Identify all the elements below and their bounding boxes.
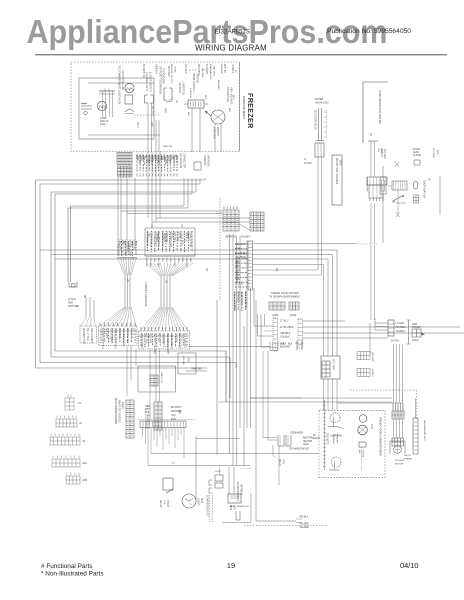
connector grid C1 bbox=[223, 210, 239, 231]
svg-text:FREEZER: FREEZER bbox=[246, 93, 255, 129]
label text mass rows bbox=[136, 155, 138, 157]
svg-text:PNK BLU/WHT: PNK BLU/WHT bbox=[90, 328, 92, 344]
svg-text:RED/WHT TAN: RED/WHT TAN bbox=[82, 328, 85, 344]
harness fan L2 bbox=[140, 307, 160, 331]
svg-text:DEFROST: DEFROST bbox=[178, 82, 181, 94]
nested corners to FF doors box bbox=[254, 325, 273, 327]
compressor brackets bbox=[209, 480, 212, 485]
icemaker wires bbox=[278, 446, 280, 485]
icemaker dashed boundary right bbox=[350, 389, 417, 391]
wires from connector cluster to bus bbox=[191, 178, 193, 194]
svg-text:YEL/RED: YEL/RED bbox=[383, 149, 385, 159]
dashed link top bbox=[362, 81, 364, 83]
svg-text:ASSY): ASSY) bbox=[121, 402, 124, 409]
compressor feed bus bbox=[148, 465, 250, 467]
svg-text:ICEMAKER MOLD: ICEMAKER MOLD bbox=[236, 482, 239, 502]
harness fan U2 bbox=[145, 255, 195, 257]
connector bracket pair bbox=[145, 95, 149, 103]
thermal fuse row bbox=[189, 346, 270, 348]
svg-text:WTR TANK: WTR TANK bbox=[332, 359, 335, 371]
connector J3 bbox=[50, 437, 80, 445]
left bus wires bbox=[36, 179, 206, 181]
bus into FF area bbox=[151, 453, 319, 455]
svg-text:BLK BLU/WHT: BLK BLU/WHT bbox=[109, 328, 111, 344]
svg-text:PNK BLK/WHT: PNK BLK/WHT bbox=[140, 333, 142, 349]
valve wires down bbox=[317, 157, 319, 270]
narrow box with vertical text bbox=[332, 155, 342, 205]
wires from heater and fan down bbox=[191, 108, 193, 152]
svg-text:YEL/RED: YEL/RED bbox=[299, 524, 309, 526]
connector J2 bbox=[56, 419, 77, 427]
svg-text:LT. BLU/BLK: LT. BLU/BLK bbox=[280, 326, 294, 329]
wires from connector into FF box bbox=[323, 379, 325, 410]
svg-text:(PART OF CONTROL: (PART OF CONTROL bbox=[118, 400, 121, 424]
bus lines upper FF bbox=[250, 397, 302, 399]
door cluster feed bbox=[382, 210, 384, 243]
freezer lamp E2 bbox=[125, 83, 134, 92]
water valve body bbox=[318, 108, 320, 140]
svg-text:WHT 2X: WHT 2X bbox=[223, 64, 225, 73]
svg-text:DEFROST CUTOUT: DEFROST CUTOUT bbox=[170, 64, 172, 85]
ballast box bbox=[125, 95, 133, 104]
mini header bbox=[80, 326, 97, 343]
freezer harness connector A bbox=[117, 153, 132, 165]
svg-text:J4B: J4B bbox=[82, 478, 87, 482]
svg-text:HEATER: HEATER bbox=[196, 74, 199, 83]
fluorescent tube symbol bbox=[99, 90, 115, 92]
svg-text:SUPPLY: SUPPLY bbox=[371, 369, 373, 378]
svg-text:19: 19 bbox=[227, 561, 235, 570]
svg-text:FREEZER LIGHT: FREEZER LIGHT bbox=[145, 72, 148, 91]
L2 header box bbox=[139, 331, 190, 349]
svg-text:TAN: TAN bbox=[153, 258, 156, 263]
FF lamp 1 bbox=[330, 413, 340, 423]
svg-text:EI32AF65JS: EI32AF65JS bbox=[215, 29, 250, 36]
compressor motor bbox=[182, 494, 196, 508]
svg-text:BRN: BRN bbox=[171, 233, 173, 238]
ice motor bbox=[390, 441, 405, 454]
fresh food compartment dashed boundary bbox=[319, 410, 385, 477]
icemaker connector header bbox=[392, 411, 404, 419]
svg-text:BLK/WHT 2X: BLK/WHT 2X bbox=[142, 64, 144, 78]
svg-text:TAN: TAN bbox=[235, 278, 240, 281]
svg-text:PUR RED: PUR RED bbox=[118, 328, 120, 339]
svg-text:HARNESS: HARNESS bbox=[207, 155, 210, 167]
right vertical wires bbox=[439, 176, 441, 215]
compressor bottom wire bbox=[222, 522, 251, 524]
svg-text:ISOLATION VALVE: ISOLATION VALVE bbox=[314, 110, 317, 130]
lamp socket bars bbox=[81, 105, 92, 107]
svg-text:J10: J10 bbox=[178, 410, 181, 415]
svg-text:WHT/BLK: WHT/BLK bbox=[155, 233, 157, 243]
svg-text:BLK: BLK bbox=[228, 108, 230, 113]
component box right bbox=[380, 177, 386, 194]
svg-text:J1: J1 bbox=[78, 401, 81, 405]
svg-text:NATURAL BRN WHT: NATURAL BRN WHT bbox=[423, 420, 426, 441]
svg-text:GRN/YEL: GRN/YEL bbox=[163, 146, 173, 148]
freezer harness connector B bbox=[118, 166, 133, 177]
svg-text:FRESH FOOD COMPARTMENT: FRESH FOOD COMPARTMENT bbox=[379, 417, 383, 457]
svg-text:HIGH VOLTAGE: HIGH VOLTAGE bbox=[230, 87, 233, 105]
title rule bbox=[35, 54, 447, 56]
svg-text:SEE NOTE: SEE NOTE bbox=[326, 433, 328, 445]
svg-text:J1: J1 bbox=[165, 280, 169, 283]
wires under board bbox=[142, 428, 144, 438]
UI to stack wires bbox=[370, 160, 372, 177]
aux box above board bbox=[178, 353, 196, 374]
svg-text:Publication No. 5995564050: Publication No. 5995564050 bbox=[327, 28, 411, 35]
wires down from header bbox=[393, 419, 395, 438]
svg-text:(GND): (GND) bbox=[412, 340, 419, 342]
svg-text:ORN PUR: ORN PUR bbox=[162, 333, 164, 344]
svg-text:PNK: PNK bbox=[235, 274, 240, 277]
alarm grid bbox=[414, 195, 419, 203]
svg-text:DOOR AJAR SW: DOOR AJAR SW bbox=[423, 180, 426, 199]
svg-text:PTC: PTC bbox=[163, 500, 165, 505]
svg-text:BLK/WHT: BLK/WHT bbox=[280, 346, 291, 349]
svg-text:PNK: PNK bbox=[145, 427, 150, 430]
svg-text:LT. BLU: LT. BLU bbox=[280, 320, 289, 323]
FF doors connector strip left bbox=[273, 318, 278, 351]
freezer compartment dashed boundary bbox=[71, 62, 240, 152]
svg-text:COMP: COMP bbox=[197, 498, 200, 506]
svg-text:WHT/BLK: WHT/BLK bbox=[432, 148, 434, 158]
svg-text:RED: RED bbox=[181, 258, 183, 263]
svg-text:BLU: BLU bbox=[123, 241, 125, 246]
svg-text:YEL/BLU: YEL/BLU bbox=[184, 64, 186, 74]
svg-text:DOOR: DOOR bbox=[413, 149, 420, 151]
svg-text:FILTER: FILTER bbox=[362, 450, 364, 458]
svg-text:15 PIN: 15 PIN bbox=[391, 340, 399, 343]
stack wires down bbox=[370, 203, 372, 244]
svg-text:OVLD: OVLD bbox=[215, 471, 221, 473]
pin row under labels bbox=[136, 174, 138, 177]
svg-text:RED TAN: RED TAN bbox=[149, 333, 152, 343]
svg-text:YEL LT BLU: YEL LT BLU bbox=[86, 328, 88, 341]
svg-text:TAN: TAN bbox=[171, 414, 176, 417]
svg-text:J3: J3 bbox=[82, 439, 85, 443]
svg-text:ORN: ORN bbox=[164, 108, 166, 113]
bundle U2-L2 bbox=[160, 276, 162, 307]
wires into 15 pin connector bbox=[375, 322, 388, 324]
svg-text:####: #### bbox=[81, 102, 87, 106]
svg-text:FINGER: FINGER bbox=[404, 459, 413, 461]
svg-text:120V: 120V bbox=[100, 123, 106, 126]
compressor dotted lines bbox=[209, 495, 211, 522]
mini connector bracket bbox=[69, 282, 77, 287]
svg-text:04/10: 04/10 bbox=[400, 561, 419, 570]
svg-text:SIDE: SIDE bbox=[339, 160, 341, 166]
svg-text:ORN/BLK: ORN/BLK bbox=[155, 64, 157, 75]
svg-text:TAN: TAN bbox=[189, 258, 192, 263]
FF doors connector strip right bbox=[298, 319, 303, 348]
svg-text:SPLY: SPLY bbox=[136, 122, 139, 128]
svg-text:FAN: FAN bbox=[370, 424, 373, 429]
center pin ladder bbox=[248, 241, 253, 290]
relay / PTC bbox=[163, 478, 173, 490]
svg-text:TAN/BLK: TAN/BLK bbox=[231, 64, 234, 74]
connector J4A bbox=[52, 459, 80, 467]
svg-text:WHT/BLK: WHT/BLK bbox=[201, 68, 203, 78]
svg-text:RED/WHT YEL/RED: RED/WHT YEL/RED bbox=[153, 333, 155, 354]
svg-text:GRY: GRY bbox=[161, 258, 163, 263]
svg-text:MAIN POWER BOARD: MAIN POWER BOARD bbox=[114, 398, 117, 424]
connector box above FF bbox=[321, 356, 340, 379]
FF fan small circle bbox=[359, 415, 367, 423]
svg-text:WATER TANK HARNESS: WATER TANK HARNESS bbox=[335, 158, 338, 185]
svg-text:ORN/BLK: ORN/BLK bbox=[127, 241, 129, 251]
svg-text:CABINET: CABINET bbox=[203, 155, 206, 166]
svg-text:SCREW: SCREW bbox=[412, 327, 421, 329]
svg-text:HI-LIMIT: HI-LIMIT bbox=[241, 236, 251, 239]
freezer lamp E1 bbox=[97, 101, 106, 110]
connector J1 bbox=[65, 398, 74, 410]
stack connector body bbox=[369, 185, 383, 198]
valve connector bbox=[315, 143, 324, 157]
svg-text:HARNESS: HARNESS bbox=[240, 484, 243, 496]
freezer harness dashed boundary bbox=[219, 198, 221, 300]
svg-text:ORN: ORN bbox=[169, 258, 171, 263]
svg-text:WHT/RED: WHT/RED bbox=[68, 305, 79, 308]
FF fan motor bbox=[358, 425, 368, 435]
svg-text:ORN/BLK: ORN/BLK bbox=[220, 64, 222, 74]
icemaker grid bbox=[392, 438, 404, 446]
LED supply blocks bbox=[357, 352, 370, 360]
icemaker bracket bbox=[278, 435, 284, 446]
svg-text:WHT/BLK: WHT/BLK bbox=[396, 326, 407, 329]
svg-text:HTR: HTR bbox=[282, 459, 284, 464]
header to board drops bbox=[126, 346, 128, 396]
svg-text:ORN: ORN bbox=[380, 148, 382, 153]
freezer light assembly box bbox=[79, 78, 154, 139]
15 pin connector strip bbox=[388, 320, 394, 336]
FF doors grid A bbox=[269, 302, 285, 310]
svg-text:THERMISTOR: THERMISTOR bbox=[366, 177, 368, 192]
svg-text:ICEMAKER: ICEMAKER bbox=[290, 432, 303, 435]
L2 text mass bbox=[140, 334, 142, 335]
svg-text:FZ: FZ bbox=[275, 268, 279, 272]
svg-text:EVAP FAN RTN: EVAP FAN RTN bbox=[209, 64, 212, 80]
board connector grid left bbox=[126, 400, 134, 438]
svg-text:COMPRESSOR CKT: COMPRESSOR CKT bbox=[206, 495, 208, 517]
UI connector bbox=[368, 140, 378, 142]
board bottom pin strip bbox=[140, 421, 186, 428]
hatched connector bbox=[392, 181, 407, 190]
svg-text:LAMP: LAMP bbox=[272, 314, 279, 317]
svg-text:J2: J2 bbox=[79, 421, 82, 425]
inner right boundary bbox=[239, 62, 241, 151]
svg-text:START: START bbox=[166, 500, 169, 508]
svg-text:HTR RTN: HTR RTN bbox=[189, 88, 191, 98]
svg-text:ORN: ORN bbox=[187, 357, 189, 362]
svg-text:DEFROST: DEFROST bbox=[225, 236, 237, 239]
svg-text:FZ HARNESS: FZ HARNESS bbox=[179, 153, 182, 169]
yel/red labels bbox=[296, 518, 302, 520]
svg-text:YEL/BLK: YEL/BLK bbox=[299, 517, 309, 519]
svg-text:BLU/WHT: BLU/WHT bbox=[163, 233, 165, 243]
U1 text mass bbox=[117, 241, 119, 242]
svg-text:LT BLU: LT BLU bbox=[304, 162, 312, 165]
svg-text:J2: J2 bbox=[126, 279, 130, 282]
svg-text:YEL/BLK: YEL/BLK bbox=[280, 336, 290, 339]
harness fan L1 bbox=[100, 307, 125, 326]
dotted board edge bbox=[138, 419, 195, 421]
svg-text:YEL/RED ORN: YEL/RED ORN bbox=[169, 232, 171, 248]
grn/yel label bbox=[186, 370, 207, 372]
FF lamp 2 bbox=[331, 457, 341, 467]
svg-text:CONNECTOR: CONNECTOR bbox=[183, 153, 186, 169]
door switch arc bbox=[125, 110, 134, 113]
svg-text:LAMP: LAMP bbox=[290, 314, 297, 317]
L2 pin ticks bbox=[140, 327, 142, 331]
svg-text:TSTAT: TSTAT bbox=[174, 66, 177, 73]
connector grid C2 bbox=[250, 212, 264, 231]
svg-text:MOTOR: MOTOR bbox=[216, 127, 219, 136]
svg-text:BLK: BLK bbox=[288, 344, 293, 346]
svg-text:FILL SW: FILL SW bbox=[182, 356, 184, 365]
svg-text:& DOOR SWITCH: & DOOR SWITCH bbox=[149, 72, 152, 92]
svg-text:LAMP 60W: LAMP 60W bbox=[330, 435, 342, 438]
svg-text:YEL/RED: YEL/RED bbox=[299, 527, 309, 529]
harness fan U1 bbox=[118, 258, 125, 276]
svg-text:THERMOSTAT: THERMOSTAT bbox=[162, 68, 165, 85]
svg-text:BLK WHT: BLK WHT bbox=[152, 106, 154, 116]
svg-text:RED/WHT: RED/WHT bbox=[217, 80, 219, 91]
svg-text:AJAR: AJAR bbox=[413, 151, 419, 154]
svg-text:HEATER 2X: HEATER 2X bbox=[182, 82, 185, 96]
svg-text:DRAIN TROUGH: DRAIN TROUGH bbox=[192, 73, 195, 91]
svg-text:USER INTERFACE BOARD: USER INTERFACE BOARD bbox=[378, 90, 382, 124]
overload bbox=[215, 475, 223, 481]
svg-text:ALARM: ALARM bbox=[413, 154, 421, 157]
svg-text:YEL YEL: YEL YEL bbox=[157, 333, 159, 343]
wires down to harness connectors bbox=[117, 178, 119, 240]
dashed divider bbox=[134, 114, 160, 116]
svg-text:RUN: RUN bbox=[230, 506, 235, 508]
svg-text:RED: RED bbox=[436, 150, 438, 155]
svg-text:BLK: BLK bbox=[187, 112, 189, 117]
stack connector header bbox=[367, 177, 387, 185]
svg-text:HRVST: HRVST bbox=[404, 455, 412, 457]
svg-text:LINE FLTR: LINE FLTR bbox=[160, 372, 162, 383]
svg-text:BLU/WHT: BLU/WHT bbox=[171, 407, 182, 409]
svg-text:FZ EVAP FAN: FZ EVAP FAN bbox=[226, 87, 229, 102]
center label mass bbox=[235, 243, 237, 245]
feeder verticals to icemaker header bbox=[393, 344, 395, 403]
svg-text:BLK BRN: BLK BRN bbox=[105, 328, 107, 338]
connector J4B bbox=[66, 476, 80, 484]
tick mark 2 bbox=[396, 212, 400, 217]
diagonal link bbox=[239, 224, 250, 230]
harness connector U2 box bbox=[145, 228, 195, 256]
svg-text:YEL/BLK: YEL/BLK bbox=[396, 330, 406, 333]
svg-text:J4A: J4A bbox=[82, 461, 87, 465]
svg-text:GRN: GRN bbox=[412, 324, 417, 326]
defrost thermostat symbol bbox=[164, 88, 167, 100]
mini fan bbox=[81, 318, 87, 326]
FF connector rail bbox=[324, 400, 326, 470]
svg-text:TAN PNK: TAN PNK bbox=[174, 333, 177, 343]
control box outline bbox=[138, 366, 176, 392]
bus feeders right bbox=[253, 243, 357, 245]
svg-text:FZ COMPARTMENT LIGHT ASSY: FZ COMPARTMENT LIGHT ASSY bbox=[118, 66, 121, 105]
svg-text:BLU/GRY: BLU/GRY bbox=[205, 64, 207, 75]
alarm oval bbox=[413, 181, 417, 189]
svg-text:ORN: ORN bbox=[177, 258, 179, 263]
svg-text:WIRING DIAGRAM: WIRING DIAGRAM bbox=[195, 43, 267, 52]
bus lines into center bbox=[40, 249, 249, 251]
svg-text:HEATER: HEATER bbox=[303, 440, 312, 443]
svg-text:# Functional Parts: # Functional Parts bbox=[41, 563, 93, 570]
svg-text:FRESH FOOD DOORS: FRESH FOOD DOORS bbox=[271, 291, 299, 295]
svg-text:ORN/BLK WHT/BLK: ORN/BLK WHT/BLK bbox=[114, 328, 116, 349]
bundle U1-L1 bbox=[124, 275, 126, 307]
svg-text:LIGHT: LIGHT bbox=[313, 438, 320, 440]
L1 header box bbox=[99, 326, 138, 346]
svg-text:* Non-Illustrated Parts: * Non-Illustrated Parts bbox=[41, 571, 104, 578]
horizontal feeders y211-213 bbox=[121, 210, 222, 212]
svg-text:PNK: PNK bbox=[179, 233, 181, 238]
svg-text:CAPACITOR: CAPACITOR bbox=[236, 505, 249, 508]
door switch symbol bbox=[393, 196, 402, 201]
svg-text:RUN: RUN bbox=[200, 498, 202, 503]
svg-text:LEAF: LEAF bbox=[303, 443, 309, 446]
svg-text:RELAY: RELAY bbox=[159, 500, 162, 508]
svg-text:ICE MAKER MOLD: ICE MAKER MOLD bbox=[289, 448, 309, 451]
bottom dashed boundary bbox=[244, 525, 328, 527]
svg-text:IN SHOWN ENVIRONMENT: IN SHOWN ENVIRONMENT bbox=[270, 296, 301, 299]
svg-text:WHT: WHT bbox=[204, 95, 206, 101]
svg-text:DEFROST TERMINATION: DEFROST TERMINATION bbox=[159, 66, 162, 95]
valve tick bbox=[316, 140, 325, 142]
run capacitor box bbox=[228, 494, 241, 503]
wires from light assy down bbox=[147, 103, 149, 152]
svg-text:GRY: GRY bbox=[165, 258, 167, 263]
L1 pin ticks bbox=[99, 323, 101, 327]
svg-text:FAN SPLY: FAN SPLY bbox=[213, 66, 216, 77]
svg-text:MOTOR: MOTOR bbox=[395, 464, 404, 466]
drain trough dashed line bbox=[189, 69, 206, 71]
user interface board outline bbox=[363, 82, 388, 143]
wires out right of FF doors bbox=[303, 320, 346, 322]
svg-text:AIR: AIR bbox=[358, 450, 361, 454]
harness brace bbox=[408, 320, 410, 344]
icemaker feed verticals bbox=[255, 300, 257, 521]
air filter box bbox=[359, 442, 366, 447]
defrost heater element bbox=[188, 100, 204, 108]
svg-text:CABINET HARNESS: CABINET HARNESS bbox=[144, 282, 148, 307]
U2 text mass bbox=[147, 231, 149, 233]
vertical to compressor bbox=[195, 436, 197, 500]
FF doors grid B bbox=[289, 302, 299, 310]
tick mark bbox=[395, 162, 399, 167]
L1 text mass bbox=[100, 328, 102, 331]
svg-text:LED PWR: LED PWR bbox=[371, 352, 373, 362]
board connector grid mid bbox=[154, 402, 162, 430]
svg-text:BLK: BLK bbox=[282, 344, 287, 346]
center vertical bundle bbox=[216, 300, 218, 455]
svg-text:LIGHT SHIELD 2X: LIGHT SHIELD 2X bbox=[121, 70, 124, 90]
svg-text:VALVE 120V: VALVE 120V bbox=[315, 102, 329, 105]
svg-text:RED/WHT: RED/WHT bbox=[235, 243, 247, 246]
svg-text:LT GRN: LT GRN bbox=[396, 322, 405, 325]
svg-text:GRN/YEL: GRN/YEL bbox=[191, 368, 203, 371]
svg-text:FZ: FZ bbox=[205, 268, 209, 272]
svg-text:COMPARTMENT: COMPARTMENT bbox=[242, 96, 246, 119]
svg-text:WHT/RED: WHT/RED bbox=[167, 66, 169, 77]
evaporator fan motor bbox=[211, 110, 225, 124]
right narrow connector bbox=[413, 418, 418, 454]
